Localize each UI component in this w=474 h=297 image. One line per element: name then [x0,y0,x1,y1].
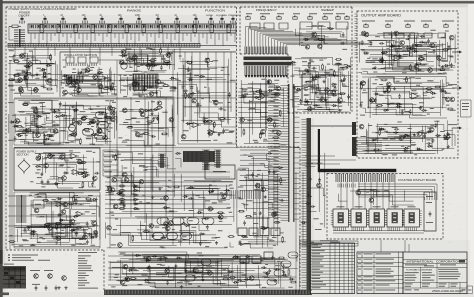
diode CR62 [241,95,247,97]
fuse F1 [9,25,21,28]
ground [403,135,406,138]
ground [40,173,43,176]
ground [53,110,56,113]
capacitor C4 [107,79,112,82]
wire [449,135,455,146]
wire left edge rails [10,60,12,250]
resistor R92 [143,133,150,135]
wire [169,266,182,274]
diode CR46 [128,269,134,271]
resistor R46 [75,198,77,205]
transistor Q26 [103,135,108,140]
ic comb bar 2 [204,150,209,170]
scan left edge blob [0,250,3,264]
wire [179,231,196,243]
switch wafer mid rail [28,30,236,32]
transistor Q57 [194,268,199,273]
transistor Q16 [166,53,171,58]
capacitor C31 [181,222,186,225]
resistor R51 [222,278,229,280]
capacitor C39 [143,257,148,260]
opamp U14 [69,154,79,159]
board outline freq-sweep bottom L [240,54,352,113]
capacitor C77 [386,86,391,89]
capacitor C75 [374,98,377,103]
capacitor C120 [44,138,47,143]
ground [274,279,277,282]
resistor R27 [105,117,112,119]
potentiometers VR2-VR9 [246,15,349,19]
resistor R106 [335,63,342,65]
board outline counter display board [327,174,443,240]
resistor R116 [83,128,90,130]
wire [253,237,268,247]
ic U18 MM5369 [205,165,235,179]
capacitor C65 [420,35,425,38]
transistor Q90 [445,135,450,140]
wire stubs to ladder [268,88,281,218]
board outline freq-sweep left [239,7,241,54]
diode CR38 [89,236,95,238]
wire [22,230,33,237]
board outline P/S-osc-counter right [236,7,238,148]
resistor R76 [434,86,441,88]
value label [48,128,54,130]
resistor R43 [73,196,75,203]
wire [184,181,234,222]
capacitor C115 [396,45,401,48]
diode CR12 [148,86,154,88]
capacitor C94 [151,135,156,138]
resistor R38 [76,227,83,229]
potentiometers VR10-VR14 [364,23,448,27]
wire [361,120,454,154]
resistor R99 [245,215,252,217]
ground [147,266,150,269]
wire [86,107,117,145]
transistor Q7 [62,176,67,181]
ground [156,117,159,120]
resistor R70 [260,88,262,95]
transistor Q32 [181,134,186,139]
diode CR8 [77,72,83,74]
diode CR36 [30,231,36,233]
diode CR39 [92,198,98,200]
transistor Q114 [317,183,322,188]
transistor Q103 [110,188,115,193]
resistor R98 [280,177,282,184]
bus band rail [8,44,236,46]
connector ladder J2/P2 [289,84,294,222]
switch wafer contacts [30,25,233,28]
capacitor C10 [160,65,163,70]
value label [135,186,141,188]
wire cluster [139,92,160,97]
ground [238,240,241,243]
legend transistor Q14 [34,274,39,279]
legend grounds [57,286,67,289]
diode CR67 [412,44,418,46]
diode CR107 [345,65,351,67]
diode CR68 [363,52,369,54]
diode CR15 [60,114,66,116]
scan top edge line [0,1,474,3]
diode CR66 [416,69,422,71]
resistor R49 [143,231,150,233]
diode CR92 [224,189,230,191]
opamp U13 [207,130,217,135]
resistor R65 [266,119,273,121]
value label [164,62,170,64]
transformer T2 winding B [22,196,26,222]
resistor R42 [42,199,49,201]
transistor Q2 [18,78,23,83]
transistor Q55 [166,226,171,231]
paper white right margin [468,4,474,294]
wire [159,55,171,61]
capacitor C73 [360,103,363,108]
resistor R48 [228,236,235,238]
driver boxes row2 [240,252,273,263]
resistor R73 [409,64,411,71]
value label [447,136,451,138]
capacitor C9 [126,58,129,63]
value label [206,78,212,80]
diode CR49 [289,278,295,280]
transistor Q11 [260,94,265,99]
ground [293,87,296,90]
switch wafer pads [31,25,229,27]
value label [387,104,390,106]
wire [369,57,383,65]
transistor Q101 [135,132,140,137]
resistor R110 [381,51,388,53]
wire [8,51,58,97]
wire [359,76,455,118]
diode CR55 [233,255,239,257]
transistor Q96 [139,109,144,114]
resistor R109 [418,58,425,60]
wire ps rails [14,191,100,247]
transistor Q21 [156,79,161,84]
capacitor C87 [31,230,36,233]
capacitor C41 [201,273,204,278]
resistor R77 [361,83,363,90]
value labels [361,121,451,155]
resistor R117 [70,134,77,136]
capacitor C28 [86,222,89,227]
pin comb osc [65,75,83,84]
wires to title block [296,172,303,293]
resistor R97 [282,236,284,243]
display sub comb [338,184,355,188]
harness comb upper [245,47,287,55]
diode CR86 [43,225,49,227]
resistor R1 [24,75,26,82]
value label [230,79,236,81]
capacitor C67 [450,63,453,68]
value label [271,93,277,95]
board outline P/S-osc-counter top [6,6,236,8]
capacitor C84 [393,131,398,134]
resistor R16 [163,61,170,63]
value label [422,132,427,134]
value label [151,58,156,60]
ground [444,90,447,93]
value label [46,233,52,235]
resistor R29 [203,117,205,124]
ground [441,65,444,68]
display top comb [336,174,395,182]
legend transistor Q16 [62,276,67,281]
transistor Q69 [267,80,272,85]
wafer contact group gaps [40,25,230,33]
capacitor C26 [94,172,99,175]
transistor Q29 [111,117,116,122]
value label [205,118,208,120]
resistor R59 [339,93,346,95]
resistor R78 [447,108,454,110]
transistor Q78 [394,31,399,36]
crystal Y1 dense block [183,151,215,162]
diode CR20 [45,138,51,140]
resistor R60 [308,62,310,69]
svg-text:SINE: SINE [206,15,214,17]
table ECN revisions [357,252,403,294]
resistor R93 [127,126,134,128]
haze counter logic [150,148,300,208]
resistor R24 [53,124,60,126]
diode CR91 [188,186,194,188]
wire [119,48,175,72]
diode CR95 [144,109,150,111]
diode CR21 [98,112,104,114]
capacitor C109 [310,205,315,208]
resistor R108 [416,45,423,47]
value label [261,226,265,228]
capacitor C25 [91,182,94,187]
diode CR115 [13,125,19,127]
capacitor C44 [175,264,178,269]
diode CR29 [35,165,41,167]
value labels [16,102,73,143]
relay K1 [121,63,127,69]
capacitor C54 [304,98,307,103]
resistor R13 [70,76,72,83]
svg-text:INTERNATIONAL: INTERNATIONAL [407,260,435,263]
pin fan right of P4 [363,138,382,153]
value label [371,196,376,198]
capacitor C82 [426,142,431,145]
capacitor C112 [309,177,312,182]
wires into title block [381,240,409,252]
diode CR57 [328,28,334,30]
resistor R95 [115,154,117,161]
diode CR50 [145,259,151,261]
wire [338,194,347,201]
transistor Q41 [93,176,98,181]
ground [338,109,341,112]
capacitor C80 [443,137,448,140]
resistor R32 [206,120,213,122]
transistor Q14 [67,80,72,85]
transistor Q93 [208,206,213,211]
board outline step vertical [103,250,105,290]
transistor Q43 [70,219,75,224]
diode CR90 [197,211,203,213]
value label [42,123,46,125]
connector P3 [352,122,356,135]
capacitor C15 [59,101,62,106]
capacitor C113 [318,178,321,183]
ground [324,98,327,101]
wire [388,103,400,114]
resistor R102 [335,59,342,61]
capacitor C18 [183,90,188,93]
diode CR87 [64,225,70,227]
transistor Q85 [450,97,455,102]
ground [158,187,161,190]
capacitor C35 [268,268,271,273]
transistor Q70 [276,86,281,91]
ground [217,133,220,136]
transistor Q60 [208,271,213,276]
resistor R86 [8,241,15,243]
resistor R53 [232,256,239,258]
transistor Q24 [26,128,31,133]
transistor Q19 [143,86,148,91]
value labels [360,78,456,115]
transistor Q80 [379,58,384,63]
resistor R30 [219,118,226,120]
resistor R66 [274,121,276,128]
ground [447,45,450,48]
capacitor C70 [370,41,373,46]
value label [72,229,76,231]
wire [295,29,303,36]
diode CR89 [183,195,189,197]
transistor Q34 [205,58,210,63]
transistor Q17 [119,60,124,65]
capacitor C29 [161,236,166,239]
display bottom wires [333,231,424,234]
wire verticals left board [110,50,173,248]
resistor R18 [128,60,135,62]
wire [62,224,74,231]
resistor R31 [186,62,193,64]
ground [59,219,62,222]
resistor R101 [305,81,312,83]
trimmer boxes [250,23,288,29]
transistor Q42 [48,154,53,159]
wire [30,192,100,245]
resistor R81 [406,76,408,83]
wire [62,67,117,96]
diode CR111 [301,222,307,224]
table revision/part list [310,243,355,294]
wire [88,74,103,78]
wire [45,118,52,124]
capacitor C96 [133,184,136,189]
wire [89,206,99,217]
value label [285,267,289,269]
output arrow 1 [452,51,459,53]
lamp test strip [300,241,358,246]
resistor pack U36 [424,192,436,231]
transistor Q13 [63,90,68,95]
board outline counter top dash [236,146,300,148]
diode CR114 [17,135,23,137]
value label [212,100,216,102]
transistor Q121 [33,109,38,114]
capacitor C111 [307,195,312,198]
side label box [461,100,472,117]
diode CR78 [403,147,409,149]
resistor R67 [255,91,262,93]
capacitor C61 [270,130,275,133]
notes lines [8,255,10,260]
value label [83,229,88,231]
diode CR69 [444,64,450,66]
resistor row R310-R315 [119,185,126,209]
capacitor C20 [195,103,200,106]
diode CR37 [59,219,65,221]
wire [84,73,94,80]
diode CR58 [303,38,309,40]
capacitor C24 [218,108,223,111]
transistor Q115 [369,198,374,203]
diode CR9 [63,74,69,76]
value label [227,207,231,209]
bus band hatch [10,44,197,47]
transistor Q44 [34,208,39,213]
ic U10 [97,122,108,128]
wire [120,74,176,97]
wire mains [9,26,14,40]
ic U12 [83,129,94,135]
resistor R61 [328,74,335,76]
resistor R85 [379,129,381,136]
value label [68,135,72,137]
diode CR104 [261,228,267,230]
value labels [69,101,114,141]
svg-text:FUNCTION: FUNCTION [205,9,225,13]
connector P2 pins [302,120,307,288]
ground [419,107,422,110]
wire [299,26,347,50]
wire long rows [8,75,236,98]
opamp U21 [409,93,420,99]
transistor Q119 [449,35,454,40]
resistor R58 [322,64,324,71]
transistor Q81 [437,56,442,61]
value label [53,238,58,240]
capacitor C46 [160,256,163,261]
transistor Q33 [208,131,213,136]
ladder pins left [281,86,289,221]
capacitor C53 [311,76,316,79]
transformer T2 core [20,195,23,223]
transistor Q8 [71,80,76,85]
ground [271,256,274,259]
value labels [10,224,98,246]
resistor R90 [161,133,168,135]
transistor Q35 [214,100,219,105]
capacitor C91 [204,217,209,220]
diode CR82 [380,128,386,130]
resistor R45 [44,223,51,225]
value labels [109,212,227,248]
